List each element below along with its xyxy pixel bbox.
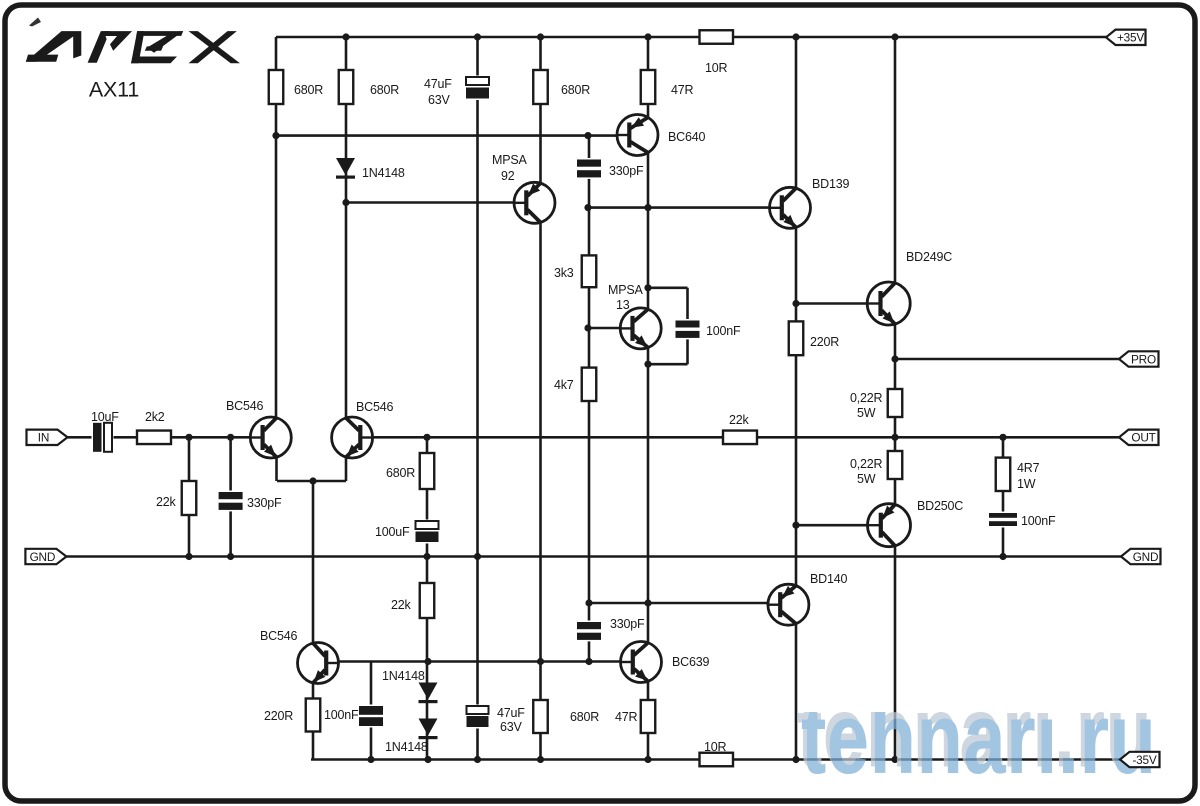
- svg-text:4R7: 4R7: [1017, 461, 1040, 475]
- svg-text:1W: 1W: [1017, 477, 1036, 491]
- svg-text:680R: 680R: [386, 466, 415, 480]
- svg-text:330pF: 330pF: [610, 617, 645, 631]
- svg-text:AX11: AX11: [89, 78, 139, 102]
- svg-text:680R: 680R: [294, 83, 323, 97]
- svg-text:330pF: 330pF: [609, 164, 644, 178]
- svg-text:10R: 10R: [704, 740, 727, 754]
- svg-text:1N4148: 1N4148: [362, 166, 405, 180]
- svg-text:4k7: 4k7: [554, 378, 574, 392]
- svg-text:220R: 220R: [810, 335, 839, 349]
- svg-text:47uF: 47uF: [424, 77, 452, 91]
- svg-text:100nF: 100nF: [324, 708, 359, 722]
- svg-text:BC546: BC546: [226, 399, 263, 413]
- svg-text:0,22R: 0,22R: [850, 457, 883, 471]
- svg-text:MPSA: MPSA: [608, 283, 643, 297]
- svg-text:2k2: 2k2: [145, 410, 165, 424]
- svg-text:63V: 63V: [500, 720, 523, 734]
- svg-text:BD249C: BD249C: [906, 250, 952, 264]
- svg-text:BD140: BD140: [810, 572, 847, 586]
- svg-text:+35V: +35V: [1117, 31, 1144, 45]
- svg-text:BC639: BC639: [672, 655, 709, 669]
- svg-text:GND: GND: [30, 550, 56, 564]
- svg-text:-35V: -35V: [1132, 753, 1156, 767]
- svg-text:MPSA: MPSA: [492, 153, 527, 167]
- svg-text:BD250C: BD250C: [917, 499, 963, 513]
- svg-text:680R: 680R: [370, 83, 399, 97]
- svg-text:220R: 220R: [264, 709, 293, 723]
- svg-text:5W: 5W: [857, 406, 876, 420]
- svg-text:0,22R: 0,22R: [850, 391, 883, 405]
- svg-text:BC546: BC546: [260, 629, 297, 643]
- svg-text:13: 13: [616, 298, 630, 312]
- svg-text:100nF: 100nF: [706, 324, 741, 338]
- svg-text:92: 92: [501, 169, 515, 183]
- svg-text:1N4148: 1N4148: [382, 669, 425, 683]
- svg-text:BC546: BC546: [356, 400, 393, 414]
- svg-text:22k: 22k: [729, 413, 750, 427]
- svg-text:PRO: PRO: [1131, 352, 1156, 366]
- svg-text:680R: 680R: [561, 83, 590, 97]
- svg-text:47R: 47R: [615, 710, 638, 724]
- svg-text:680R: 680R: [570, 710, 599, 724]
- svg-text:47R: 47R: [671, 83, 694, 97]
- svg-text:100nF: 100nF: [1021, 514, 1056, 528]
- svg-text:GND: GND: [1133, 550, 1159, 564]
- svg-text:BD139: BD139: [812, 177, 849, 191]
- svg-text:1N4148: 1N4148: [385, 740, 428, 754]
- svg-text:3k3: 3k3: [554, 266, 574, 280]
- svg-text:5W: 5W: [857, 472, 876, 486]
- svg-text:22k: 22k: [391, 598, 412, 612]
- svg-text:10R: 10R: [705, 61, 728, 75]
- svg-text:IN: IN: [38, 431, 49, 445]
- svg-text:100uF: 100uF: [375, 525, 410, 539]
- svg-text:BC640: BC640: [668, 130, 705, 144]
- svg-text:OUT: OUT: [1131, 431, 1155, 445]
- svg-text:330pF: 330pF: [247, 496, 282, 510]
- svg-text:47uF: 47uF: [497, 706, 525, 720]
- svg-text:63V: 63V: [428, 93, 451, 107]
- svg-text:10uF: 10uF: [91, 410, 119, 424]
- svg-text:22k: 22k: [156, 495, 177, 509]
